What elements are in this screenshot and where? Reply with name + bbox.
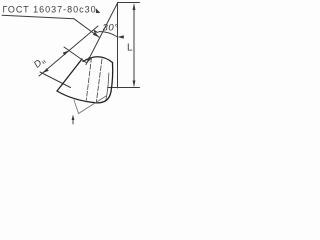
svg-text:30°: 30°	[103, 23, 119, 34]
weld leader line	[74, 19, 100, 38]
pipe axis dash line left	[86, 58, 91, 101]
L dim bottom arrowhead	[133, 81, 136, 88]
mitre line lower arrowhead	[86, 57, 92, 64]
30deg angle arc	[99, 31, 118, 37]
pipe left edge	[57, 59, 82, 91]
pipe right edge	[111, 63, 113, 92]
L dim top arrowhead	[133, 3, 136, 10]
30 arc left arrowhead	[93, 29, 99, 33]
weld designation shelf line	[2, 15, 74, 19]
bottom arrow shaft	[72, 117, 74, 124]
Dn upper arrowhead	[63, 50, 69, 55]
dimension line L	[133, 5, 135, 85]
weld aux triangle symbol	[96, 8, 100, 13]
svg-text:L: L	[127, 43, 133, 54]
pipe axis dash line right	[96, 59, 102, 103]
bottom extension line	[108, 87, 140, 89]
Dn upper extension line	[64, 47, 86, 63]
pipe bottom face arc	[57, 91, 111, 103]
V leader line left	[74, 100, 79, 114]
leader arrowhead on mitre seam	[93, 32, 100, 38]
inner wall line bottom right	[106, 73, 109, 100]
bottom arrow head	[72, 115, 75, 121]
30 arc right arrowhead	[118, 35, 124, 38]
text Dn rotated	[32, 55, 48, 71]
V leader line right	[79, 96, 107, 114]
vertical extension line	[117, 3, 119, 88]
pipe top face arc	[83, 57, 113, 63]
svg-text:ГОСТ 16037-80с30: ГОСТ 16037-80с30	[3, 4, 97, 14]
mitre cut line	[86, 3, 118, 65]
Dn lower extension line	[40, 72, 71, 88]
Dn dimension line	[39, 26, 98, 76]
Dn lower arrowhead	[42, 68, 48, 73]
top extension line	[118, 2, 140, 4]
